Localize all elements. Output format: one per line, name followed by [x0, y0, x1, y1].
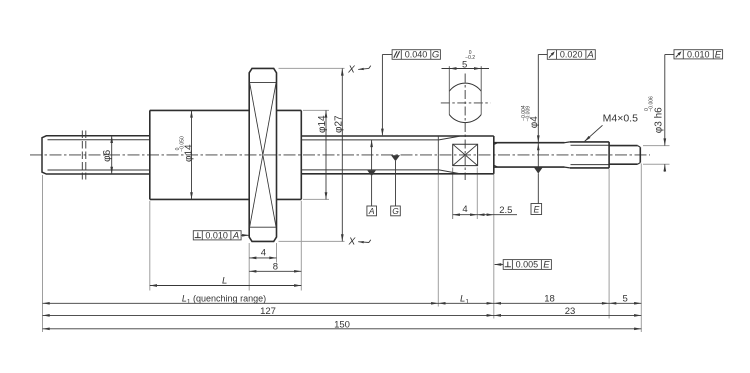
svg-text:0.005: 0.005 — [516, 260, 539, 270]
svg-text:23: 23 — [565, 306, 576, 317]
svg-text:18: 18 — [544, 294, 555, 305]
svg-text:M4×0.5: M4×0.5 — [603, 112, 638, 124]
svg-text:G: G — [392, 206, 399, 216]
svg-text:−0.006: −0.006 — [648, 96, 654, 112]
svg-text:G: G — [432, 50, 439, 61]
svg-text:X: X — [347, 65, 355, 76]
svg-text:A: A — [586, 50, 593, 61]
svg-text:φ6: φ6 — [102, 149, 113, 161]
svg-text:0.010: 0.010 — [205, 230, 228, 240]
svg-text:0.020: 0.020 — [560, 50, 583, 60]
svg-text:−0.050: −0.050 — [180, 136, 186, 152]
svg-text:5: 5 — [623, 294, 628, 305]
svg-text:L: L — [222, 276, 227, 287]
svg-text:4: 4 — [261, 247, 266, 258]
svg-text:−0.009: −0.009 — [526, 106, 532, 122]
svg-text:0.040: 0.040 — [405, 50, 428, 60]
svg-text:4: 4 — [462, 204, 467, 215]
svg-text:0.010: 0.010 — [687, 49, 710, 59]
svg-text:φ27: φ27 — [333, 115, 344, 133]
svg-text:2.5: 2.5 — [499, 205, 512, 216]
svg-text:φ14: φ14 — [317, 115, 328, 133]
svg-text:E: E — [533, 204, 539, 214]
svg-text:X: X — [348, 237, 356, 248]
svg-text:−0.2: −0.2 — [465, 55, 475, 61]
svg-text:8: 8 — [273, 261, 278, 272]
svg-text:A: A — [368, 206, 375, 216]
svg-text:E: E — [543, 260, 550, 271]
svg-text:A: A — [232, 230, 239, 241]
svg-text:φ3 h6: φ3 h6 — [654, 107, 665, 133]
svg-text:127: 127 — [260, 306, 276, 317]
svg-text:150: 150 — [334, 319, 350, 330]
svg-text:E: E — [715, 49, 722, 60]
